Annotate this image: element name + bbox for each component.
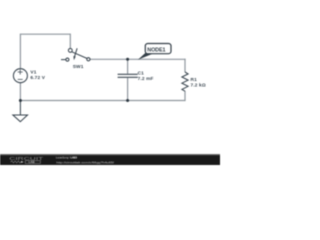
svg-text:7.2 mF: 7.2 mF [138, 76, 154, 82]
svg-text:R1: R1 [191, 77, 198, 83]
svg-text:C1: C1 [138, 70, 145, 76]
svg-text:6.72 V: 6.72 V [30, 75, 45, 81]
svg-text:LucasSong / LAB3: LucasSong / LAB3 [56, 156, 77, 160]
svg-text:LAB: LAB [29, 160, 35, 164]
svg-text:7.2 kΩ: 7.2 kΩ [191, 82, 206, 88]
svg-text:http://circuitlab.com/c/66gg7h: http://circuitlab.com/c/66gg7h4u65f [56, 160, 114, 164]
svg-text:NODE1: NODE1 [147, 47, 165, 53]
svg-text:V1: V1 [30, 70, 36, 76]
svg-text:SW1: SW1 [73, 64, 84, 70]
